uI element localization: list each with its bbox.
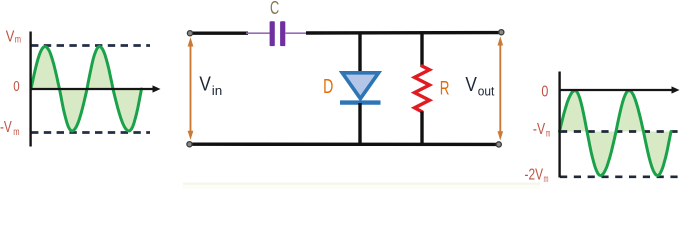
svg-text:-V: -V: [0, 119, 12, 136]
node top-left: [187, 31, 192, 36]
svg-text:m: m: [13, 127, 19, 138]
diode branch wire bottom: [358, 103, 361, 143]
top wire left segment: [190, 32, 248, 35]
-Vm dashed level (output): [560, 130, 681, 133]
input sine fill: [31, 47, 142, 132]
svg-text:C: C: [270, 0, 279, 18]
svg-text:out: out: [478, 84, 495, 99]
-Vm dashed level line: [31, 131, 150, 134]
Vin arrow: [188, 37, 194, 140]
left axis arrowhead: [153, 85, 161, 92]
output sine fill: [560, 91, 672, 176]
resistor branch wire bottom: [420, 112, 423, 144]
svg-text:0: 0: [13, 79, 19, 95]
left horizontal axis: [30, 88, 154, 90]
diode D triangle: [342, 73, 378, 99]
svg-text:-V: -V: [533, 121, 546, 138]
resistor R zigzag: [415, 66, 430, 112]
svg-text:m: m: [544, 174, 549, 185]
svg-text:R: R: [440, 78, 450, 100]
-2Vm dashed level (output): [560, 175, 681, 178]
capacitor C plate 1: [270, 21, 275, 46]
right axis arrowhead: [672, 86, 680, 93]
svg-text:D: D: [323, 76, 333, 98]
bottom wire: [190, 142, 499, 146]
capacitor C plate 2: [280, 21, 285, 46]
svg-text:m: m: [546, 129, 551, 140]
output sine stroke: [560, 91, 672, 176]
node bottom-left: [187, 142, 192, 147]
capacitor C lead right: [286, 32, 309, 34]
svg-text:V: V: [6, 29, 15, 46]
svg-text:0: 0: [541, 84, 548, 101]
input sine stroke: [31, 47, 142, 132]
node bottom-right: [496, 142, 501, 147]
left vertical axis: [29, 32, 31, 147]
right horizontal axis: [559, 89, 673, 91]
svg-text:V: V: [199, 73, 211, 95]
svg-text:V: V: [465, 74, 477, 96]
Vout arrow: [498, 36, 504, 140]
top wire right segment: [306, 31, 501, 35]
svg-text:in: in: [212, 83, 223, 98]
resistor R branch wire top: [420, 34, 423, 67]
node top-right: [499, 30, 504, 35]
faint cropped band at bottom: [183, 183, 540, 185]
right vertical axis: [558, 72, 560, 178]
Vm dashed level line: [31, 44, 150, 47]
capacitor C lead left: [246, 32, 270, 34]
svg-text:-2V: -2V: [525, 166, 544, 183]
diode D branch wire top: [358, 34, 361, 74]
svg-text:m: m: [15, 35, 21, 46]
diode D cathode bar: [340, 100, 381, 104]
